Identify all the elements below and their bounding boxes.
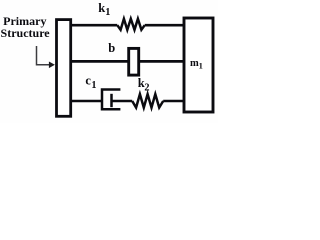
svg-text:1: 1 (105, 7, 110, 18)
svg-text:Structure: Structure (1, 26, 51, 40)
wire bottom line right (163, 100, 184, 103)
damper c1 piston (110, 94, 113, 107)
svg-text:1: 1 (91, 80, 96, 91)
mass m1 (184, 18, 213, 112)
svg-text:2: 2 (144, 83, 149, 94)
wire middle line (71, 60, 184, 63)
svg-text:b: b (108, 41, 115, 55)
primary structure wall (57, 20, 71, 117)
svg-text:k: k (98, 1, 105, 15)
wire piston rod (112, 100, 133, 103)
arrow to wall (37, 46, 50, 65)
spring k1 (117, 19, 144, 30)
wire bottom line (71, 100, 102, 103)
damper c1 cylinder (102, 90, 120, 110)
wire top line (71, 24, 184, 27)
damper b body (129, 48, 139, 75)
spring k2 (132, 94, 163, 107)
svg-text:1: 1 (199, 60, 203, 70)
